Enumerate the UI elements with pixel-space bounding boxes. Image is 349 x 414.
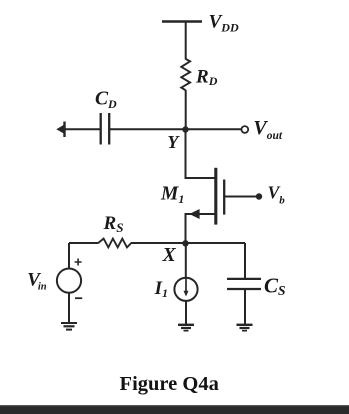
svg-text:M1: M1 [160,184,184,207]
svg-text:Vb: Vb [268,183,286,207]
svg-text:I1: I1 [154,278,168,300]
svg-text:RD: RD [195,67,218,89]
svg-text:CS: CS [264,273,286,298]
svg-text:RS: RS [103,213,124,235]
svg-text:X: X [162,245,177,266]
svg-text:Vin: Vin [27,269,47,292]
svg-text:CD: CD [95,89,117,112]
svg-text:VDD: VDD [209,11,239,34]
svg-text:Figure Q4a: Figure Q4a [120,373,219,395]
svg-text:Vout: Vout [253,117,282,142]
svg-text:Y: Y [167,132,180,152]
